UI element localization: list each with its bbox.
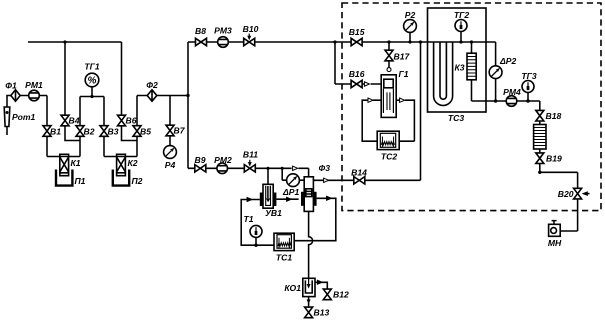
svg-text:К2: К2	[128, 158, 138, 168]
svg-text:В19: В19	[546, 154, 562, 164]
svg-text:ТГ1: ТГ1	[84, 62, 100, 72]
svg-text:В9: В9	[195, 155, 206, 165]
svg-text:Ф1: Ф1	[5, 81, 17, 91]
svg-text:УВ1: УВ1	[265, 208, 282, 218]
svg-text:П1: П1	[75, 176, 86, 186]
svg-text:ΔР2: ΔР2	[499, 56, 517, 66]
svg-text:В17: В17	[394, 52, 411, 62]
svg-text:Р4: Р4	[165, 160, 176, 170]
svg-text:В4: В4	[69, 116, 80, 126]
svg-text:К1: К1	[71, 158, 81, 168]
svg-text:ТГ3: ТГ3	[521, 71, 537, 81]
svg-text:Р2: Р2	[405, 10, 416, 20]
svg-text:В3: В3	[108, 127, 119, 137]
svg-text:ТС3: ТС3	[448, 113, 464, 123]
svg-text:В2: В2	[84, 127, 95, 137]
svg-text:РМ3: РМ3	[214, 26, 232, 36]
svg-text:РМ2: РМ2	[214, 155, 232, 165]
svg-text:К3: К3	[454, 63, 464, 73]
svg-text:Т1: Т1	[243, 214, 253, 224]
svg-text:ТС1: ТС1	[276, 253, 292, 263]
svg-text:Ф2: Ф2	[146, 80, 158, 90]
svg-text:РМ1: РМ1	[25, 80, 43, 90]
svg-text:В20: В20	[558, 189, 574, 199]
svg-text:В14: В14	[351, 168, 367, 178]
svg-text:Г1: Г1	[399, 69, 409, 79]
svg-text:В1: В1	[50, 127, 61, 137]
svg-text:В11: В11	[243, 150, 258, 160]
svg-text:ΔР1: ΔР1	[282, 187, 300, 197]
svg-text:МН: МН	[548, 238, 562, 248]
svg-text:В6: В6	[126, 116, 137, 126]
svg-text:В8: В8	[195, 26, 206, 36]
svg-text:Рот1: Рот1	[12, 112, 36, 122]
svg-text:В15: В15	[349, 27, 365, 37]
svg-text:В13: В13	[314, 308, 330, 318]
svg-text:В5: В5	[140, 127, 151, 137]
svg-text:РМ4: РМ4	[503, 87, 521, 97]
svg-text:В7: В7	[174, 126, 186, 136]
svg-text:ТС2: ТС2	[381, 152, 397, 162]
svg-text:Ф3: Ф3	[319, 163, 331, 173]
svg-text:КО1: КО1	[284, 283, 301, 293]
svg-text:В12: В12	[333, 290, 349, 300]
svg-text:ТГ2: ТГ2	[454, 10, 470, 20]
svg-text:В10: В10	[243, 24, 259, 34]
svg-text:В16: В16	[349, 69, 365, 79]
svg-text:В18: В18	[546, 111, 562, 121]
svg-text:%: %	[88, 76, 97, 87]
svg-text:П2: П2	[132, 176, 143, 186]
